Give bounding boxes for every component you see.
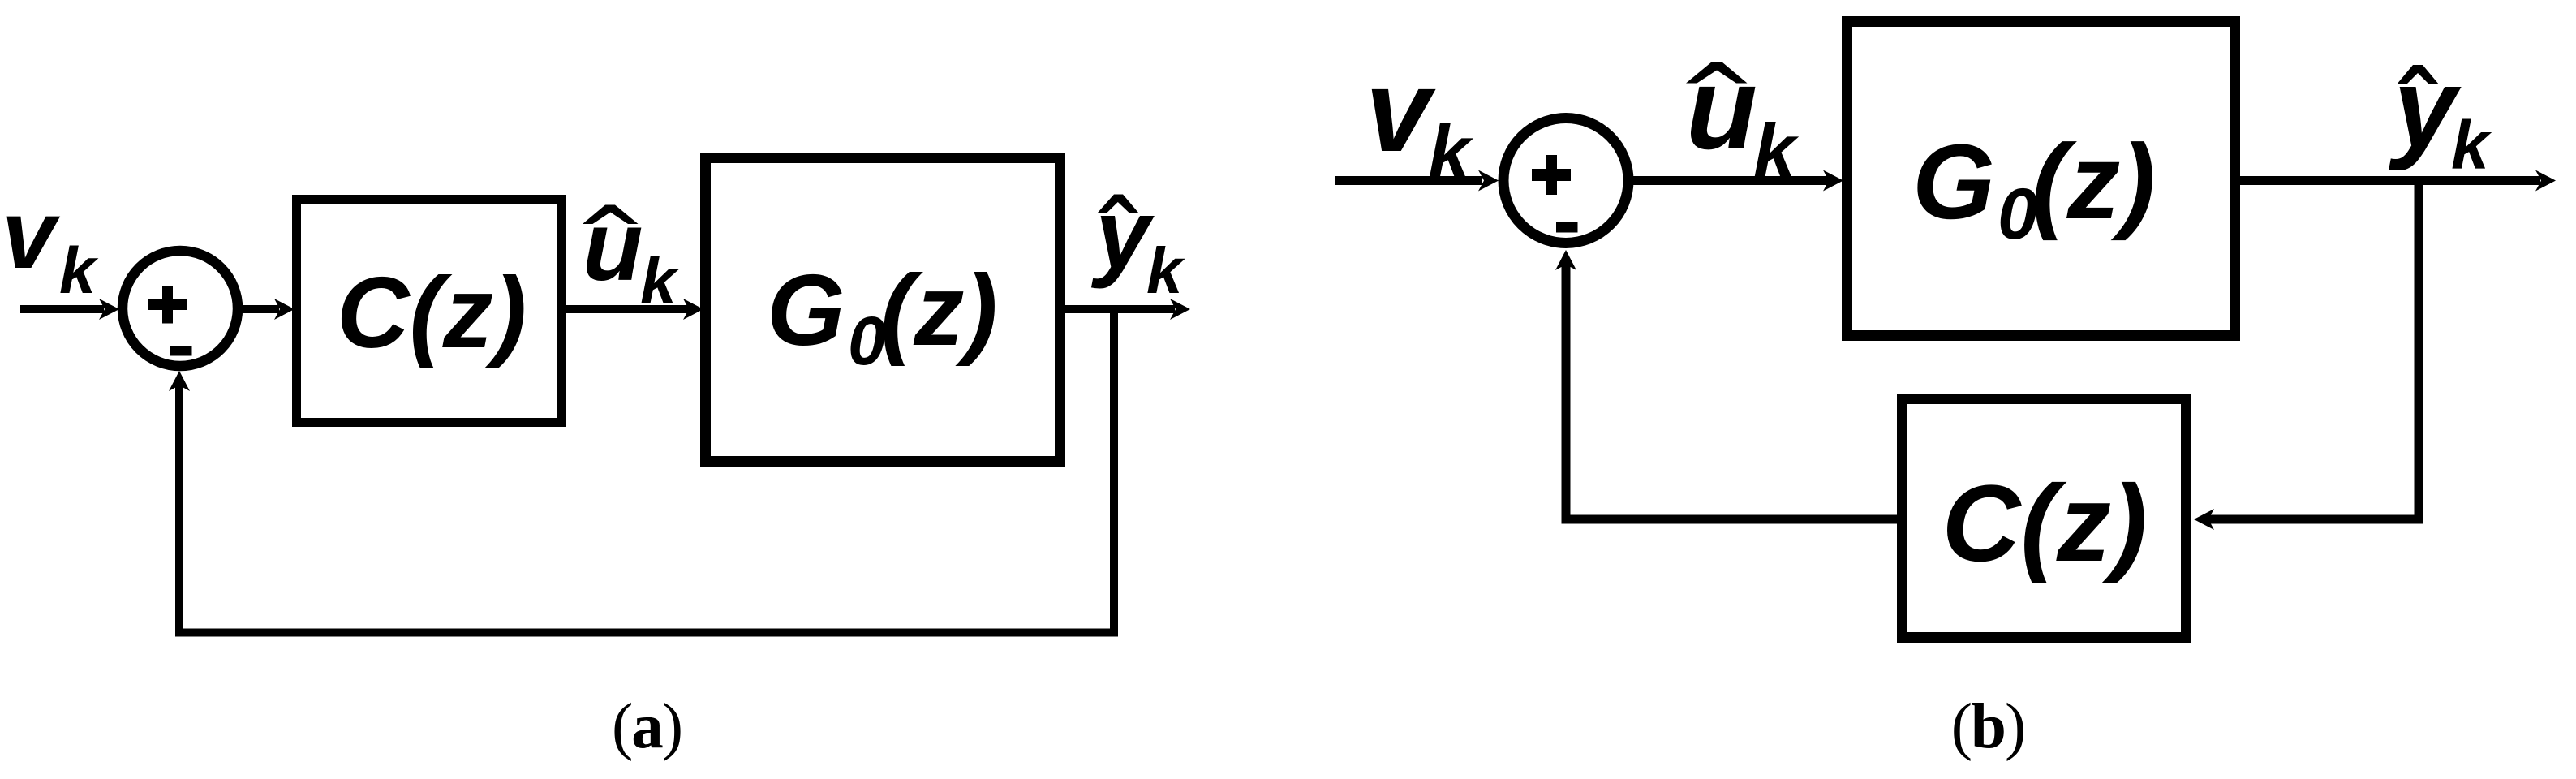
svg-text:k: k [1753,108,1800,193]
svg-text:y: y [1090,179,1155,289]
svg-text:C(z): C(z) [337,257,527,369]
svg-text:k: k [1146,235,1185,307]
svg-text:u: u [1686,43,1757,174]
svg-text:v: v [2,180,61,289]
svg-text:k: k [59,235,99,308]
svg-text:u: u [583,191,643,301]
svg-text:(a): (a) [612,691,682,762]
svg-text:k: k [640,245,680,318]
svg-text:G: G [1912,122,1995,241]
svg-text:(z): (z) [2032,122,2156,241]
svg-text:k: k [2451,107,2492,183]
svg-text:k: k [1428,110,1474,195]
svg-text:G: G [767,255,845,367]
svg-text:(z): (z) [880,255,998,367]
svg-text:v: v [1365,45,1436,176]
svg-text:(b): (b) [1951,691,2025,762]
svg-text:C(z): C(z) [1942,463,2147,584]
